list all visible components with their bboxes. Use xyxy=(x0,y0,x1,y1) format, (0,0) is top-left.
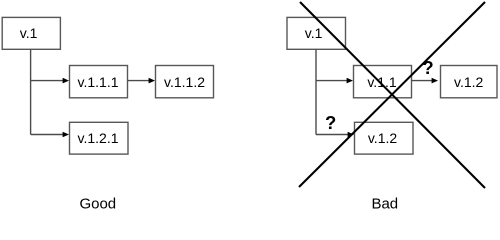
box v.1.2.1 xyxy=(70,122,129,154)
cross-out line (slash) xyxy=(299,2,485,187)
question mark on v.1 to v.1.2 arrow xyxy=(325,112,336,133)
wire arrow v.1.1.1 to v.1.1.2 xyxy=(128,78,156,84)
svg-text:v.1.2: v.1.2 xyxy=(454,74,484,90)
wire arrow v.1 to v.1.1.1 xyxy=(31,78,69,84)
cross-out line (backslash) xyxy=(300,2,485,188)
box v.1.2 (lower) xyxy=(355,122,414,154)
wire arrow v.1 to v.1.2.1 xyxy=(31,132,69,138)
wire arrow v.1.1 to v.1.2 (right) xyxy=(412,78,439,84)
svg-text:?: ? xyxy=(422,57,433,78)
wire arrow v.1 to v.1.1 xyxy=(316,78,353,84)
box v.1 (good tree) xyxy=(2,17,60,49)
question mark on v.1.1 to v.1.2 arrow xyxy=(422,57,433,78)
box v.1.1.2 xyxy=(156,66,214,98)
wire trunk from v.1 (bad) xyxy=(315,49,317,135)
label Good xyxy=(79,196,116,213)
svg-text:v.1.1.2: v.1.1.2 xyxy=(164,74,205,90)
wire trunk from v.1 (good) xyxy=(30,49,32,135)
svg-text:v.1: v.1 xyxy=(305,25,323,41)
svg-text:v.1.1.1: v.1.1.1 xyxy=(78,74,119,90)
box v.1.2 (right) xyxy=(441,66,498,98)
box v.1 (bad tree) xyxy=(287,17,346,49)
svg-text:v.1.1: v.1.1 xyxy=(367,74,397,90)
svg-text:v.1.2.1: v.1.2.1 xyxy=(78,130,119,146)
svg-text:v.1: v.1 xyxy=(20,25,38,41)
svg-text:?: ? xyxy=(325,112,336,133)
box v.1.1.1 xyxy=(70,66,128,98)
box v.1.1 xyxy=(354,66,412,98)
svg-text:Good: Good xyxy=(79,196,116,213)
wire arrow v.1 to v.1.2 (lower) xyxy=(316,132,354,138)
label Bad xyxy=(371,196,398,213)
svg-text:Bad: Bad xyxy=(371,196,398,213)
svg-text:v.1.2: v.1.2 xyxy=(368,130,398,146)
